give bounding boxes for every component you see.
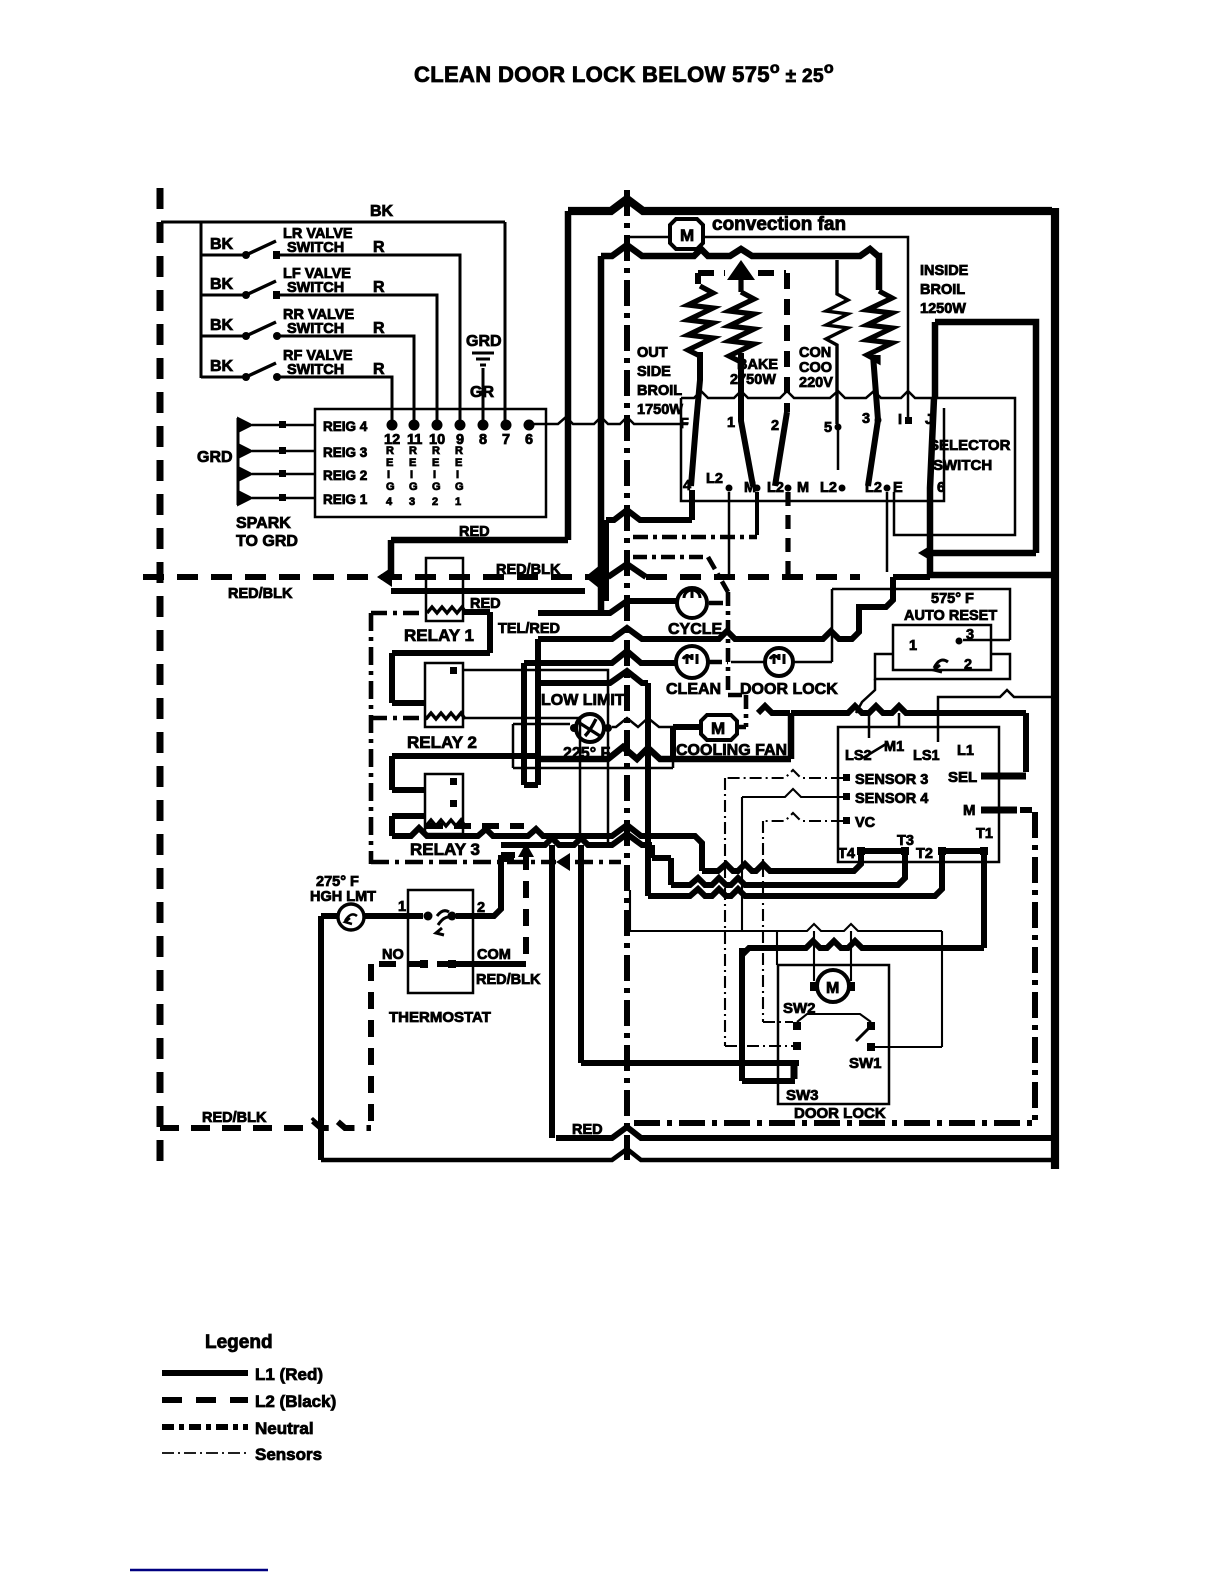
relay 3 terminal a: [450, 778, 457, 785]
wire L1 upper riser: [565, 211, 572, 540]
relay 3 coil: [426, 820, 465, 826]
svg-text:T3: T3: [897, 833, 914, 849]
svg-text:RED: RED: [459, 524, 490, 540]
svg-text:RED/BLK: RED/BLK: [228, 586, 293, 602]
wire L2 bottom dashed bus: [160, 1121, 371, 1128]
svg-text:7: 7: [502, 432, 510, 448]
svg-text:COO: COO: [799, 360, 832, 376]
svg-text:RED/BLK: RED/BLK: [496, 562, 561, 578]
wire convection fan left: [630, 236, 668, 239]
svg-text:BK: BK: [210, 236, 234, 253]
terminal 10: [432, 420, 443, 431]
svg-text:INSIDE: INSIDE: [920, 263, 969, 279]
terminal 11: [409, 420, 420, 431]
svg-text:REIG 2: REIG 2: [323, 468, 367, 483]
svg-text:SWITCH: SWITCH: [933, 457, 992, 474]
svg-text:RELAY 3: RELAY 3: [410, 840, 480, 859]
relay 2 box: [425, 663, 463, 727]
svg-text:SW1: SW1: [849, 1055, 882, 1072]
svg-text:1750W: 1750W: [637, 402, 683, 418]
spark ground rail: [237, 418, 240, 505]
terminal 6: [524, 420, 535, 431]
spark electrode arrows: [238, 418, 252, 505]
svg-text:R: R: [373, 320, 385, 337]
wire L1 relay2 out: [392, 756, 536, 790]
switch RR VALVE SWITCH: [201, 307, 414, 421]
svg-text:E: E: [893, 480, 903, 496]
svg-text:1: 1: [727, 415, 735, 431]
wire L2 COM drop dashed: [500, 853, 526, 958]
wire L1 bottom bus 1: [556, 1127, 1052, 1138]
neutral right vertical segment: [1032, 812, 1038, 1120]
wire L1 T1 drop: [742, 855, 984, 1081]
wire doorlock lamp left: [731, 661, 765, 664]
blade 2 to L2: [775, 412, 787, 486]
svg-text:CYCLE: CYCLE: [668, 621, 723, 638]
svg-text:M: M: [680, 226, 694, 245]
legend Sensors sample: [162, 1452, 248, 1454]
svg-text:Legend: Legend: [205, 1332, 273, 1353]
neutral relay2 stub: [371, 716, 427, 721]
legend L1 sample: [162, 1370, 248, 1376]
svg-text:R: R: [373, 239, 385, 256]
svg-text:T2: T2: [916, 846, 933, 862]
svg-text:T4: T4: [838, 846, 855, 862]
wire RED jog: [391, 540, 568, 577]
svg-text:L2: L2: [820, 480, 837, 496]
svg-text:GRD: GRD: [197, 449, 233, 466]
svg-text:1: 1: [398, 899, 406, 915]
svg-text:SELECTOR: SELECTOR: [929, 437, 1011, 454]
svg-text:2: 2: [771, 418, 779, 434]
relay 3 terminal b: [450, 800, 457, 807]
svg-text:THERMOSTAT: THERMOSTAT: [389, 1009, 491, 1026]
svg-text:SENSOR 3: SENSOR 3: [855, 772, 928, 788]
svg-text:BK: BK: [210, 317, 234, 334]
wire terminal 6 to selector F: [529, 417, 688, 424]
wire L1 T3 bus: [652, 845, 905, 885]
wire L1 cycle feed: [538, 490, 692, 613]
svg-text:Sensors: Sensors: [255, 1445, 322, 1464]
svg-text:REIG 3: REIG 3: [323, 445, 368, 460]
wire BK feeder vertical: [200, 222, 203, 378]
svg-text:L2 (Black): L2 (Black): [255, 1392, 336, 1411]
svg-text:BK: BK: [210, 276, 234, 293]
svg-text:6: 6: [937, 480, 945, 496]
svg-text:I: I: [898, 412, 902, 428]
svg-text:BROIL: BROIL: [637, 383, 682, 399]
blade F to 4: [691, 352, 700, 486]
svg-text:8: 8: [479, 432, 487, 448]
switch SW3: [786, 1064, 819, 1104]
svg-text:575° F: 575° F: [931, 591, 974, 607]
switch SW1: [849, 1022, 882, 1072]
svg-text:5: 5: [824, 420, 832, 436]
svg-text:REIG1: REIG1: [455, 445, 464, 508]
switch LF VALVE SWITCH: [201, 266, 437, 421]
sensors wire sensor3: [725, 770, 843, 1046]
wire T4 T3 bar: [865, 848, 901, 854]
relay 3 box: [425, 774, 463, 834]
svg-text:RED/BLK: RED/BLK: [476, 972, 541, 988]
svg-text:M: M: [963, 802, 976, 819]
svg-text:SW3: SW3: [786, 1087, 819, 1104]
switch RF VALVE SWITCH: [201, 348, 392, 421]
L1 top thick border: [568, 199, 1052, 211]
svg-text:BK: BK: [210, 358, 234, 375]
wire L1 right lower bus: [930, 572, 1052, 579]
node VC: [843, 817, 850, 824]
neutral M link: [1020, 807, 1035, 813]
svg-text:T1: T1: [976, 826, 993, 842]
convection fan motor M: [670, 219, 703, 249]
svg-text:REIG4: REIG4: [386, 445, 395, 508]
blade 3 to L2: [868, 355, 878, 486]
wire L1 below dashed bus: [391, 588, 585, 594]
wire L1 thermostat 2 up: [456, 855, 501, 916]
svg-text:RED/BLK: RED/BLK: [202, 1110, 267, 1126]
ignition module box: [315, 409, 546, 517]
relay 2 coil: [426, 713, 465, 719]
wire L1 cooling fan bus: [538, 713, 791, 759]
svg-text:LS1: LS1: [913, 748, 940, 764]
svg-text:RED: RED: [572, 1122, 603, 1138]
relay 2 terminal: [450, 667, 457, 674]
relay 1 box: [426, 558, 463, 621]
wire low limit left: [513, 724, 673, 768]
svg-text:Neutral: Neutral: [255, 1419, 314, 1438]
svg-text:AUTO RESET: AUTO RESET: [904, 608, 997, 624]
legend L2 sample: [162, 1397, 248, 1403]
wire BK top bus: [161, 221, 505, 224]
legend Neutral sample: [162, 1424, 248, 1430]
L2 left border dashed bus: [157, 188, 164, 1165]
switch SW2: [783, 1000, 871, 1050]
svg-text:TO GRD: TO GRD: [236, 533, 298, 550]
svg-text:3: 3: [862, 411, 870, 427]
svg-text:REIG2: REIG2: [432, 445, 441, 508]
wire L2 thermostat NO dashed: [371, 964, 424, 1128]
wire L1 bottom bus 2: [321, 1149, 1052, 1160]
svg-text:1: 1: [909, 638, 917, 654]
svg-text:CLEAN: CLEAN: [666, 681, 721, 698]
ground symbol: [472, 353, 494, 421]
junction arrow bake top: [727, 260, 755, 280]
wire L1 right mid bus: [758, 706, 1026, 772]
terminal 9: [455, 420, 466, 431]
wire L2a drop thin: [728, 492, 731, 577]
svg-text:1250W: 1250W: [920, 301, 966, 317]
svg-text:SPARK: SPARK: [236, 515, 291, 532]
wire L1 left drop a: [549, 845, 555, 1138]
switch LOW LIMIT: [541, 692, 625, 762]
neutral relay feeder vertical: [369, 613, 374, 864]
thermostat assembly: [310, 874, 541, 1026]
svg-text:SIDE: SIDE: [637, 364, 671, 380]
svg-text:M: M: [797, 480, 809, 496]
wire L1 T4 bus: [702, 851, 861, 871]
junction merge arrow left: [377, 567, 392, 587]
box 575 F AUTO RESET: [893, 591, 997, 673]
svg-text:REIG3: REIG3: [409, 445, 418, 508]
svg-text:220V: 220V: [799, 375, 833, 391]
door lock box: [778, 965, 889, 1104]
wire L1 relay3 bus: [392, 816, 702, 871]
junction merge arrow riser: [585, 565, 600, 589]
wire L2 RED/BLK dashed bus: [143, 574, 608, 580]
svg-text:F: F: [680, 416, 689, 432]
control board box: [838, 727, 999, 862]
wire thin mid horizontal: [630, 890, 942, 1047]
svg-text:M: M: [711, 719, 725, 738]
svg-text:SENSOR 4: SENSOR 4: [855, 791, 928, 807]
wire Ma drop: [755, 492, 759, 535]
blade LS2 M1: [863, 713, 886, 758]
blade 1 to M: [741, 353, 753, 486]
svg-text:RELAY 1: RELAY 1: [404, 626, 474, 645]
svg-text:2750W: 2750W: [730, 372, 776, 388]
svg-text:DOOR LOCK: DOOR LOCK: [794, 1105, 886, 1122]
heater OUT SIDE BROIL: [688, 286, 713, 356]
node SENSOR 3: [843, 774, 850, 781]
svg-text:R: R: [373, 361, 385, 378]
heater BAKE: [729, 278, 754, 362]
svg-text:275° F: 275° F: [316, 874, 359, 890]
wire L1 left riser: [598, 256, 605, 613]
svg-text:BROIL: BROIL: [920, 282, 965, 298]
heater INSIDE BROIL: [867, 291, 892, 361]
junction arrow neutral: [556, 853, 570, 871]
svg-text:3: 3: [966, 627, 974, 643]
terminal 8: [478, 420, 489, 431]
neutral center vertical bus: [624, 190, 630, 1160]
svg-text:HGH LMT: HGH LMT: [310, 889, 376, 905]
wire L1 cooling fan feed: [673, 727, 701, 759]
L1 right thick border: [1051, 208, 1059, 1169]
svg-text:R: R: [373, 279, 385, 296]
svg-text:GR: GR: [470, 384, 494, 401]
svg-text:CON: CON: [799, 345, 831, 361]
svg-text:GRD: GRD: [466, 333, 502, 350]
wire auto reset drop: [856, 679, 875, 713]
terminal 7: [501, 420, 512, 431]
svg-text:M1: M1: [884, 739, 904, 755]
wire L1 T2 bus: [648, 683, 942, 896]
motor door lock M: [810, 970, 855, 1002]
lamp CYCLE: [668, 588, 723, 638]
svg-text:NO: NO: [382, 947, 404, 963]
relay 1 coil: [427, 607, 466, 613]
svg-text:REIG 4: REIG 4: [323, 419, 368, 434]
motor COOLING FAN: [676, 715, 787, 759]
wire relay2 aux thin: [463, 670, 608, 845]
wire L1 thermostat COM: [437, 961, 526, 967]
wire L2 relay3 dashed out: [426, 823, 524, 829]
switch LR VALVE SWITCH: [201, 226, 460, 421]
svg-text:OUT: OUT: [637, 345, 668, 361]
svg-text:VC: VC: [855, 815, 876, 831]
wire convection fan to terminal I: [705, 237, 908, 418]
wire door lock motor leads: [814, 931, 851, 981]
wire T2 T1 bar: [946, 848, 980, 854]
lamp DOOR LOCK: [740, 648, 838, 698]
wire to terminal 7: [504, 222, 507, 421]
svg-text:2: 2: [964, 657, 972, 673]
svg-text:TEL/RED: TEL/RED: [498, 621, 560, 637]
wire auto reset 2 loop: [875, 654, 1010, 679]
junction merge arrow selector: [918, 544, 933, 562]
svg-text:L1 (Red): L1 (Red): [255, 1365, 323, 1384]
wire 5 stub: [837, 427, 840, 470]
wire doorlock box feed thin: [776, 931, 778, 965]
svg-text:6: 6: [525, 432, 533, 448]
selector outer boundary / wire E: [894, 398, 1015, 535]
wire L1 inside broil loop: [932, 322, 1036, 553]
svg-text:RELAY 2: RELAY 2: [407, 733, 477, 752]
wire L1 second bus: [501, 834, 652, 845]
neutral clean doorlock link: [633, 557, 746, 727]
svg-text:L2: L2: [706, 471, 723, 487]
wire L2 RED/BLK dashed bus right part: [646, 574, 860, 580]
svg-text:LOW LIMIT: LOW LIMIT: [541, 692, 625, 709]
node SENSOR 4: [843, 793, 850, 800]
svg-text:SEL: SEL: [948, 769, 977, 786]
lamp CLEAN: [666, 646, 721, 698]
wire sensor4 thin: [742, 789, 843, 931]
wire low limit to cooling fan: [612, 718, 673, 727]
svg-text:BK: BK: [370, 203, 394, 220]
terminal 12: [387, 420, 398, 431]
wire L2 bake dashed bus: [698, 273, 787, 412]
sensors wire VC: [763, 813, 843, 1022]
neutral selector M link: [633, 535, 757, 540]
blade J to 6: [930, 322, 935, 575]
wire L1 sw3 feed: [581, 1060, 799, 1066]
svg-text:DOOR LOCK: DOOR LOCK: [740, 681, 838, 698]
wire L1 clean feed: [524, 651, 676, 785]
wire L2 bus hop at neutral: [608, 564, 646, 577]
svg-text:COM: COM: [477, 947, 511, 963]
wire L1 aux 683: [540, 671, 648, 683]
neutral bottom horizontal bus: [634, 1120, 1035, 1126]
wire doorlock lamp to auto reset: [793, 589, 1010, 662]
wire L2b drop dashed: [785, 492, 790, 575]
wire L1 oven feed bus: [601, 245, 879, 290]
wire L2d drop thin: [886, 492, 889, 572]
footer rule: [130, 1569, 268, 1572]
wire L1 hgh lmt row: [321, 916, 423, 1160]
wire L2 riser top link: [501, 852, 526, 858]
wire L1 left drop b: [578, 845, 584, 1063]
junction arrow COM tap: [518, 843, 534, 857]
wire L1 relay1 out: [392, 612, 490, 703]
heater CON COO: [826, 260, 848, 424]
selector switch box: [681, 398, 944, 501]
wire L1 cycle bus: [538, 577, 893, 785]
svg-text:CLEAN DOOR LOCK BELOW 575o ± 2: CLEAN DOOR LOCK BELOW 575o ± 25o: [414, 60, 834, 87]
svg-text:M: M: [826, 980, 839, 997]
svg-text:L1: L1: [957, 743, 974, 759]
wire L1 dashed-to-right link: [893, 574, 930, 580]
svg-text:convection fan: convection fan: [712, 214, 846, 235]
svg-text:REIG 1: REIG 1: [323, 492, 368, 507]
neutral bottom link: [371, 860, 621, 865]
neutral relay1 stub: [371, 611, 427, 616]
